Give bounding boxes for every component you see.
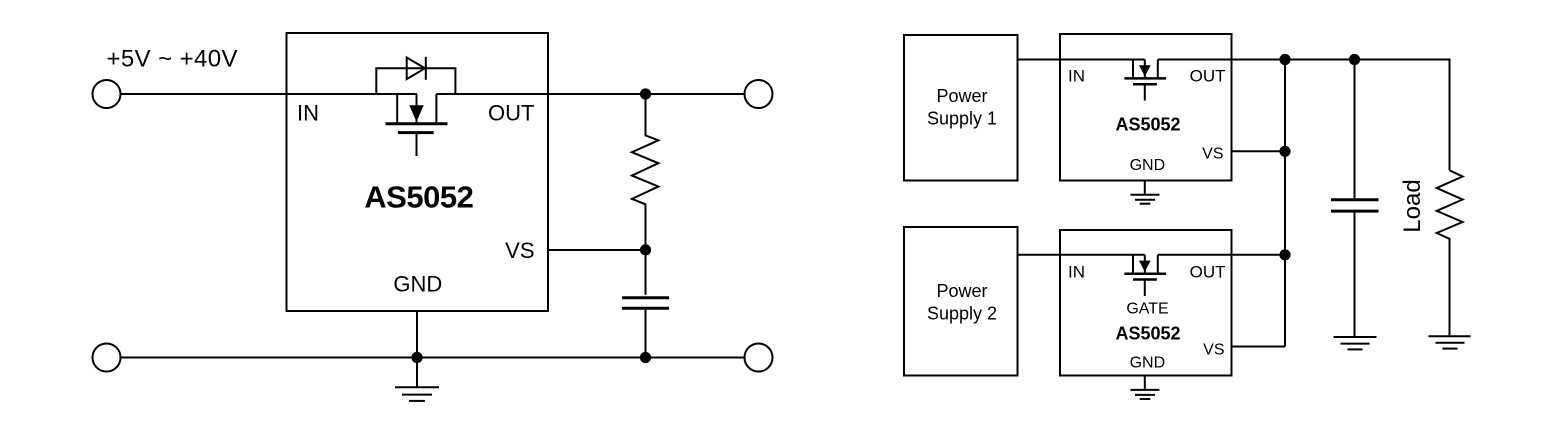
svg-text:Supply 1: Supply 1 [927,108,997,128]
svg-text:VS: VS [1203,342,1224,359]
svg-text:Power: Power [936,281,987,301]
svg-text:VS: VS [1202,146,1223,163]
svg-text:VS: VS [505,238,534,263]
svg-text:OUT: OUT [1190,67,1226,86]
svg-text:+5V ~ +40V: +5V ~ +40V [107,46,238,73]
svg-text:GND: GND [1130,157,1166,174]
svg-text:IN: IN [1068,263,1085,282]
svg-text:GND: GND [393,271,442,296]
svg-text:IN: IN [1068,67,1085,86]
svg-text:Supply 2: Supply 2 [927,303,997,323]
svg-text:GND: GND [1130,355,1166,372]
svg-text:AS5052: AS5052 [1115,115,1180,135]
svg-text:OUT: OUT [488,101,534,126]
svg-text:Power: Power [936,86,987,106]
svg-text:GATE: GATE [1126,300,1168,317]
svg-text:Load: Load [1399,179,1426,232]
svg-text:IN: IN [297,101,319,126]
svg-text:OUT: OUT [1190,263,1226,282]
svg-text:AS5052: AS5052 [364,180,473,215]
svg-text:AS5052: AS5052 [1115,324,1180,344]
